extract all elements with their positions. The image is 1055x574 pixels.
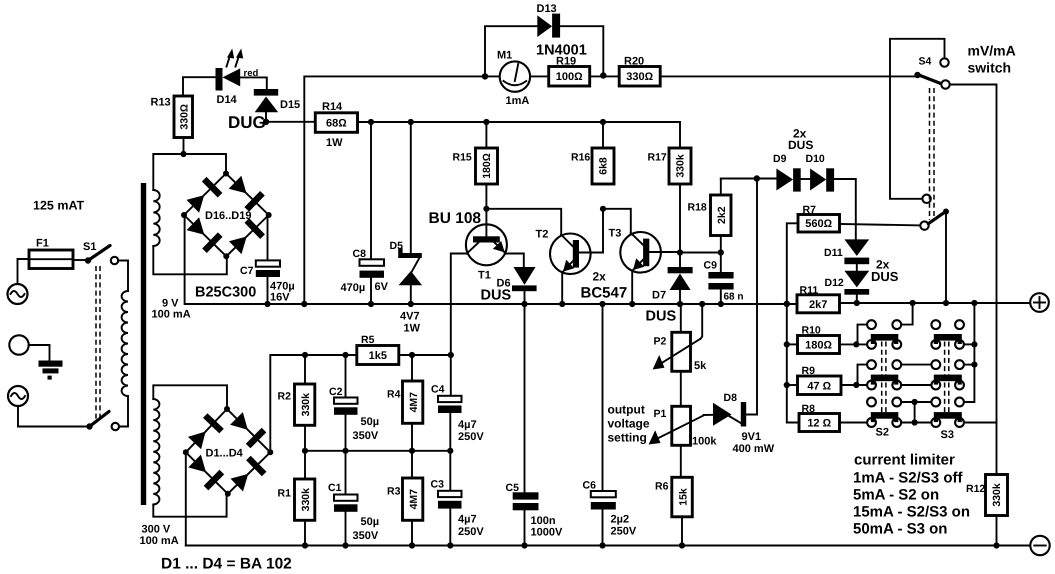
resistor R1 — [278, 479, 315, 520]
svg-text:R6: R6 — [655, 481, 669, 493]
svg-text:330Ω: 330Ω — [179, 104, 191, 130]
wire top rail left vertical — [304, 76, 499, 304]
potentiometer P2 — [653, 304, 708, 372]
node D12 bottom — [854, 300, 860, 306]
wire R-ladder left vertical — [787, 304, 799, 423]
resistor R19 — [549, 56, 590, 87]
svg-text:180Ω: 180Ω — [805, 340, 832, 352]
node S3 row2 — [971, 341, 977, 347]
svg-text:100 mA: 100 mA — [152, 309, 191, 321]
S1 mechanical link (dashed) — [95, 266, 97, 421]
node row6 junction — [912, 419, 918, 425]
svg-text:DUG: DUG — [228, 113, 266, 132]
svg-text:D15: D15 — [280, 99, 300, 111]
wire R4 leads — [411, 355, 413, 381]
wire D15 to DUG — [265, 112, 267, 122]
wire S2 row4 to S3 row4 — [901, 384, 931, 386]
wire S1 lower to primary — [119, 396, 128, 427]
node C6 top — [599, 301, 605, 307]
AC source bottom — [8, 386, 28, 406]
svg-text:C4: C4 — [431, 384, 445, 396]
resistor R9 — [787, 365, 841, 395]
svg-text:100n: 100n — [531, 515, 556, 527]
output rail to plus — [840, 302, 1031, 304]
svg-text:D1...D4: D1...D4 — [206, 448, 244, 460]
svg-text:330k: 330k — [300, 488, 312, 512]
node top-rail vertical bottom — [301, 301, 307, 307]
svg-text:R5: R5 — [361, 334, 375, 346]
svg-text:15k: 15k — [678, 488, 690, 506]
svg-text:100Ω: 100Ω — [556, 71, 583, 83]
resistor R4 — [387, 381, 423, 423]
minus terminal — [1030, 536, 1049, 555]
diode D9 — [773, 153, 801, 192]
svg-text:C7: C7 — [240, 265, 254, 277]
wire P1 wiper to D8 — [704, 414, 714, 416]
wire R18 top — [720, 179, 722, 196]
svg-text:voltage: voltage — [608, 417, 650, 431]
diode D15 — [254, 89, 300, 112]
capacitor C8 — [341, 122, 389, 304]
wire F1 to S1 — [73, 259, 86, 261]
svg-text:16V: 16V — [270, 292, 290, 304]
wire row5 to row6 — [914, 402, 916, 423]
wire hook to S2 row3 — [856, 365, 867, 385]
capacitor C1 — [328, 451, 379, 546]
svg-text:1W: 1W — [326, 137, 343, 149]
AC source top — [8, 284, 28, 304]
wire R18 bottom — [720, 236, 722, 253]
node T1 base — [483, 206, 489, 212]
svg-text:125 mAT: 125 mAT — [33, 199, 85, 213]
node R4/R3 — [409, 448, 415, 454]
wire R6 to rail — [681, 517, 683, 546]
svg-text:5k: 5k — [694, 360, 707, 372]
mid rail left section — [185, 215, 797, 304]
svg-text:D5: D5 — [390, 240, 404, 252]
svg-text:470µ: 470µ — [341, 282, 366, 294]
svg-text:BU 108: BU 108 — [429, 210, 482, 227]
wire 300V top lead — [153, 385, 227, 409]
svg-text:R4: R4 — [387, 389, 401, 401]
svg-text:100 mA: 100 mA — [140, 535, 179, 547]
bottom rail — [186, 545, 1030, 547]
resistor R6 — [655, 477, 692, 517]
capacitor C2 — [329, 355, 379, 451]
svg-text:R12: R12 — [966, 483, 985, 495]
wire D8 to D9 node — [746, 179, 757, 415]
svg-text:C1: C1 — [328, 482, 342, 494]
wire S3 row6 to R12 column — [964, 422, 997, 424]
diode D11 — [824, 239, 869, 264]
node R9 left — [784, 382, 790, 388]
svg-text:R14: R14 — [322, 101, 343, 113]
wire 9V bottom lead — [153, 246, 227, 274]
node D5 top — [408, 119, 414, 125]
wire D12 to rail — [856, 295, 858, 303]
diode D13 — [536, 3, 587, 59]
svg-text:C5: C5 — [506, 482, 520, 494]
svg-text:2x: 2x — [593, 270, 607, 284]
wire AC top to fuse — [18, 259, 30, 284]
potentiometer P1 — [649, 406, 718, 447]
svg-text:S2: S2 — [876, 427, 889, 439]
node R16 top — [600, 119, 606, 125]
node D5 bottom — [408, 301, 414, 307]
node R1 bottom — [302, 542, 308, 548]
node R2 top — [302, 352, 308, 358]
svg-text:4M7: 4M7 — [408, 489, 420, 510]
svg-text:2µ2: 2µ2 — [611, 514, 630, 526]
wire R16 node to T3 collector — [603, 209, 631, 233]
svg-text:DUS: DUS — [646, 309, 677, 325]
svg-text:R15: R15 — [453, 152, 472, 164]
wire D11 to D12 — [856, 264, 858, 271]
svg-text:350V: 350V — [353, 430, 379, 442]
wire 300V bottom lead — [153, 494, 226, 517]
svg-text:330k: 330k — [991, 483, 1003, 507]
node C2 top — [342, 352, 348, 358]
wire R16 to T2 base — [579, 209, 603, 253]
svg-text:2k2: 2k2 — [716, 206, 728, 224]
svg-text:T2: T2 — [536, 229, 549, 241]
resistor R17 — [648, 148, 692, 184]
wire R13 bottom — [183, 138, 185, 155]
svg-text:68 n: 68 n — [724, 292, 744, 303]
svg-text:D14: D14 — [217, 94, 238, 106]
transformer secondary 300V winding — [153, 399, 159, 504]
node S4 pole2 — [943, 300, 949, 306]
wire R3 leads — [411, 451, 413, 478]
transformer core — [141, 183, 146, 505]
svg-text:6k8: 6k8 — [598, 157, 610, 175]
node C4 top / T1 collector — [448, 352, 454, 358]
diode D10 — [806, 153, 835, 192]
svg-text:R20: R20 — [624, 56, 644, 68]
switch S2 contacts — [867, 320, 901, 427]
svg-text:250V: 250V — [458, 431, 484, 443]
transistor T3 BC547 — [609, 228, 661, 273]
svg-text:P1: P1 — [654, 408, 667, 420]
node R10 left — [784, 341, 790, 347]
svg-text:D8: D8 — [724, 392, 738, 404]
wire R12 bottom — [996, 516, 998, 546]
svg-text:T3: T3 — [609, 228, 622, 240]
meter M1 — [497, 50, 530, 108]
wire S2 row3 to S3 row3 — [901, 364, 931, 366]
capacitor C7 — [240, 215, 295, 304]
svg-text:180Ω: 180Ω — [481, 153, 493, 179]
node R18 bottom / C9 — [718, 249, 724, 255]
svg-text:DUS: DUS — [788, 138, 813, 152]
wire D10 to D11 — [834, 179, 856, 239]
svg-text:68Ω: 68Ω — [326, 118, 347, 130]
svg-text:1k5: 1k5 — [369, 350, 387, 362]
resistor R13 — [151, 96, 193, 138]
wire D14 anode to D15 — [240, 77, 267, 89]
svg-text:mV/mA: mV/mA — [968, 43, 1016, 59]
node D13 bypass left — [482, 73, 488, 79]
svg-text:D11: D11 — [824, 247, 843, 259]
wire P2 to P1 — [680, 371, 682, 406]
node S2 feed — [910, 300, 916, 306]
svg-text:R16: R16 — [571, 152, 590, 164]
node C1 bottom — [342, 542, 348, 548]
wire R15 leads — [485, 122, 487, 148]
switch S2 link (dashed) — [881, 342, 883, 414]
svg-text:250V: 250V — [611, 526, 637, 538]
svg-text:4µ7: 4µ7 — [458, 514, 477, 526]
upper-mid rail 355 — [270, 355, 357, 452]
wire R9 to S2 row4 — [841, 384, 867, 386]
svg-text:4M7: 4M7 — [408, 392, 420, 413]
svg-text:C9: C9 — [704, 260, 718, 272]
node T3 emitter — [629, 301, 635, 307]
resistor R8 — [799, 403, 840, 432]
resistor R14 — [315, 101, 357, 149]
node S3 feed — [971, 300, 977, 306]
resistor R3 — [387, 478, 423, 520]
resistor R20 — [619, 56, 660, 87]
node R9/S2 — [853, 382, 859, 388]
node C8 top — [368, 119, 374, 125]
svg-text:15mA - S2/S3 on: 15mA - S2/S3 on — [853, 504, 970, 521]
wire S2 row5 to S3 row5 — [901, 401, 931, 403]
resistor R15 — [453, 148, 498, 184]
svg-text:S1: S1 — [83, 241, 96, 253]
node D6/C5 — [521, 301, 527, 307]
wire R14 output rail — [358, 121, 681, 123]
wire T3 emitter — [631, 271, 633, 304]
node DUG — [263, 119, 269, 125]
svg-text:S3: S3 — [941, 429, 954, 441]
wire R7 right to S4 — [840, 224, 921, 225]
svg-text:R18: R18 — [688, 202, 707, 214]
svg-text:F1: F1 — [36, 238, 49, 250]
svg-text:D12: D12 — [825, 277, 844, 289]
wire D13 to rail — [560, 26, 603, 75]
svg-text:330k: 330k — [300, 393, 312, 417]
bridge rectifier D16..D19 — [181, 171, 272, 260]
switch S3 bridge bars — [934, 334, 962, 422]
node R6 bottom — [679, 542, 685, 548]
svg-text:330Ω: 330Ω — [626, 71, 653, 83]
svg-text:D10: D10 — [806, 153, 825, 165]
resistor R12 — [966, 475, 1008, 516]
node R15 top — [483, 119, 489, 125]
S4 mechanical link (dashed) — [929, 88, 931, 220]
bridge rectifier D1..D4 — [183, 406, 273, 497]
zener D8 — [713, 392, 775, 455]
svg-text:C3: C3 — [431, 479, 445, 491]
switch S2 bridge bars — [871, 334, 899, 422]
node R2/R1 — [302, 448, 308, 454]
wire hook to S2 row1 — [856, 325, 867, 345]
svg-text:50µ: 50µ — [361, 516, 380, 528]
capacitor C6 — [583, 304, 637, 546]
node C6 bottom — [599, 542, 605, 548]
wire R7 left — [787, 223, 798, 303]
svg-text:B25C300: B25C300 — [195, 285, 256, 301]
wire R2 leads — [304, 355, 306, 384]
switch S3 link (dashed) — [944, 342, 946, 415]
transistor T1 BU108 — [429, 209, 507, 282]
svg-text:R2: R2 — [278, 391, 292, 403]
node D7/P2 — [677, 301, 683, 307]
resistor R11 — [797, 285, 840, 313]
svg-text:C6: C6 — [583, 480, 597, 492]
node R12 bottom — [993, 542, 999, 548]
svg-text:T1: T1 — [478, 270, 491, 282]
svg-text:P2: P2 — [654, 336, 667, 348]
node P2 wiper — [699, 301, 705, 307]
svg-text:300 V: 300 V — [142, 524, 171, 536]
svg-text:1mA: 1mA — [506, 95, 530, 107]
wire S1 to primary — [118, 261, 128, 292]
svg-text:DUS: DUS — [481, 288, 512, 304]
svg-text:R17: R17 — [648, 152, 667, 164]
wire T2 emitter — [561, 272, 563, 304]
svg-text:C8: C8 — [353, 248, 367, 260]
wire S2 row6 to S3 row6 — [901, 422, 931, 424]
wire bridge D1..D4 left corner down — [185, 452, 187, 545]
node S3 row3 — [971, 362, 977, 368]
svg-text:R11: R11 — [800, 285, 819, 297]
resistor R2 — [278, 384, 315, 425]
svg-text:250V: 250V — [458, 526, 484, 538]
svg-text:R1: R1 — [278, 488, 292, 500]
wire R19 to R20 — [590, 75, 620, 77]
wire R17 leads — [679, 122, 681, 148]
diode D6 — [481, 267, 537, 304]
svg-text:D1 ... D4 = BA 102: D1 ... D4 = BA 102 — [161, 556, 292, 573]
node C4/C3 — [447, 448, 453, 454]
resistor R18 — [688, 195, 732, 236]
wire T3 base line to R18 — [680, 252, 721, 254]
svg-text:D9: D9 — [773, 153, 787, 165]
wire rail to S3 rows — [964, 303, 975, 402]
wire R8 to S2 row6 — [840, 422, 868, 424]
node C9 bottom — [718, 301, 724, 307]
resistor R10 — [787, 325, 840, 354]
svg-text:100k: 100k — [692, 436, 717, 448]
wire T1 base to T2 collector — [486, 209, 561, 235]
svg-text:2k7: 2k7 — [809, 299, 827, 311]
node R10/S2 — [853, 341, 859, 347]
capacitor C9 — [704, 253, 744, 304]
wire AC bottom to S1 lower — [18, 406, 87, 427]
node T3 base / R17 — [677, 249, 683, 255]
svg-text:D7: D7 — [652, 290, 666, 302]
svg-text:R8: R8 — [802, 403, 816, 415]
svg-text:R19: R19 — [556, 56, 576, 68]
node T2 emitter — [559, 301, 565, 307]
svg-text:9V1: 9V1 — [742, 431, 762, 443]
svg-text:R10: R10 — [802, 325, 821, 337]
wire S3 row2 stub — [964, 343, 975, 345]
node R4 top — [409, 352, 415, 358]
svg-text:current limiter: current limiter — [854, 452, 955, 469]
svg-text:C2: C2 — [329, 386, 343, 398]
svg-text:12 Ω: 12 Ω — [807, 418, 831, 430]
wire S4 top contact bracket — [890, 39, 945, 199]
svg-text:4V7: 4V7 — [400, 311, 420, 323]
capacitor C3 — [431, 451, 485, 546]
svg-text:setting: setting — [608, 431, 647, 445]
switch S3 contacts — [931, 320, 964, 427]
wire T1 emitter to D6 — [506, 254, 524, 268]
svg-text:R13: R13 — [151, 97, 171, 109]
svg-text:1mA - S2/S3 off: 1mA - S2/S3 off — [853, 470, 963, 487]
capacitor C4 — [431, 384, 484, 451]
diode D7 — [646, 253, 693, 325]
wire R16 top — [602, 122, 604, 148]
svg-text:5mA - S2 on: 5mA - S2 on — [853, 487, 939, 504]
zener D5 — [390, 122, 423, 335]
wire 9V top lead — [153, 154, 226, 190]
resistor R5 — [357, 334, 399, 365]
wire rail to S2 row1 right — [901, 303, 912, 325]
node C5 bottom — [521, 542, 527, 548]
svg-text:560Ω: 560Ω — [805, 218, 832, 230]
node R13 junction — [180, 151, 186, 157]
node D13 bypass right — [600, 72, 606, 78]
svg-text:BC547: BC547 — [581, 285, 628, 302]
wire S4 pole2 to rail — [945, 212, 947, 304]
svg-text:R9: R9 — [802, 365, 816, 377]
ground — [39, 361, 63, 380]
node C3 bottom — [447, 542, 453, 548]
transistor T2 BC547 — [536, 229, 591, 275]
wire P1 to R6 — [680, 445, 682, 477]
wire R13 top — [183, 77, 216, 96]
svg-text:DUS: DUS — [871, 269, 899, 284]
svg-text:output: output — [608, 403, 645, 417]
switch S1 (upper pole) — [83, 241, 118, 264]
wire R1 leads — [304, 451, 306, 479]
LED D14 — [216, 49, 259, 107]
capacitor C5 — [506, 304, 563, 546]
node R16 bottom — [600, 206, 606, 212]
node row5 junction — [912, 399, 918, 405]
wire S3 row3 stub — [964, 364, 975, 366]
svg-text:400 mW: 400 mW — [733, 443, 775, 455]
fuse F1 — [29, 238, 73, 269]
svg-text:1000V: 1000V — [531, 527, 563, 539]
resistor R7 — [798, 204, 840, 232]
ground terminal — [9, 335, 28, 354]
diode D12 — [825, 271, 870, 295]
svg-text:R7: R7 — [803, 204, 817, 216]
svg-text:50µ: 50µ — [361, 416, 380, 428]
node C7 bottom — [264, 301, 270, 307]
lower-mid line 450.8 — [305, 450, 450, 452]
svg-text:47 Ω: 47 Ω — [807, 381, 831, 393]
plus terminal — [1030, 293, 1049, 312]
node D9 anode — [754, 175, 760, 181]
switch S4 pole2 — [920, 209, 949, 230]
wire R20 to S4 — [660, 75, 916, 77]
node C8 bottom — [368, 301, 374, 307]
wire S4 blade to right column — [950, 85, 997, 475]
svg-text:330k: 330k — [675, 154, 687, 178]
svg-text:R3: R3 — [387, 486, 401, 498]
transformer primary winding — [122, 291, 128, 396]
svg-text:M1: M1 — [497, 50, 512, 62]
wire terminal to ground — [29, 345, 50, 361]
svg-text:1W: 1W — [404, 323, 421, 335]
wire DUG to R14 — [266, 121, 315, 123]
